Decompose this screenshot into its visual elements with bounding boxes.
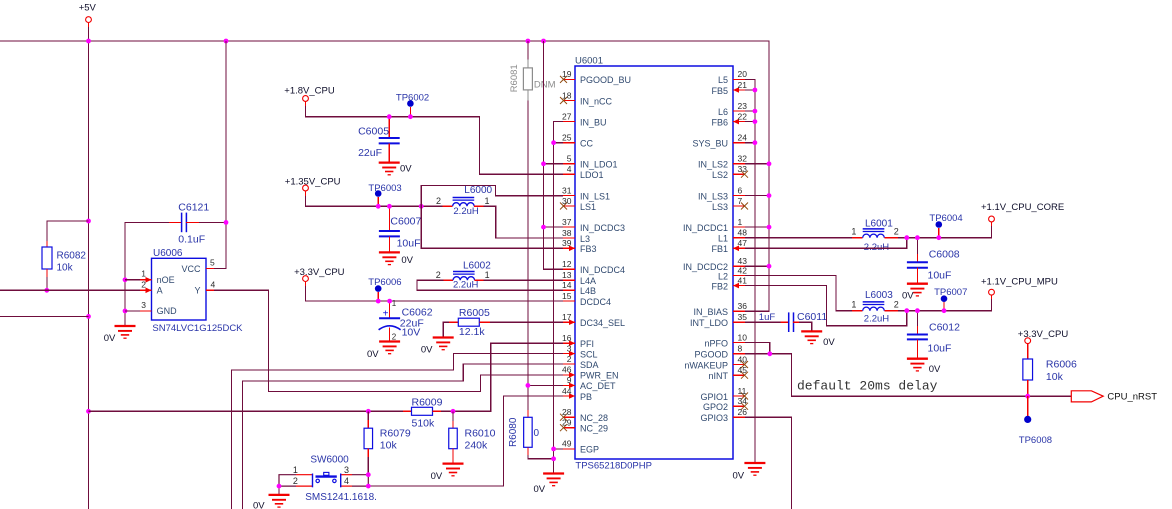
svg-text:22: 22 [738,111,748,121]
svg-text:R6009: R6009 [412,396,443,408]
wire DNM rail to AC_DET [527,101,529,410]
wire R6082 bottom to A-line [46,277,48,290]
power symbol +1.1V_CPU_CORE [981,202,1064,226]
svg-text:R6010: R6010 [465,428,496,440]
inductor L6002 [436,260,491,290]
svg-text:IN_DCDC3: IN_DCDC3 [580,223,625,233]
svg-text:default 20ms delay: default 20ms delay [797,379,938,394]
svg-text:1: 1 [851,226,856,236]
node AC_DET/DNM junction [526,383,531,388]
node nOE junction [123,277,128,282]
testpoint TP6006 [368,277,401,301]
U6001 pin 45 nINT [708,365,748,381]
ground C6007 0V [379,252,400,264]
svg-text:TP6007: TP6007 [934,287,967,298]
node IN_LS3 junction [767,193,772,198]
svg-text:0V: 0V [253,501,265,509]
wire SYS_BU stub [745,142,755,144]
wire R6005 left to ground [443,322,449,337]
resistor R6006 [1018,329,1077,396]
svg-text:1: 1 [485,270,490,280]
svg-text:4: 4 [567,164,572,174]
node SW6000 pin3 junction [366,472,371,477]
svg-text:TP6004: TP6004 [929,213,962,224]
junction dots on x=88 vertical [86,219,91,224]
wire PGOOD to delay line [745,354,1071,396]
wire C6011 right to ground [799,322,812,331]
node IN_DCDC2 junction [767,264,772,269]
wire backup-pins ground rail x=755 [745,79,755,463]
svg-text:FB3: FB3 [580,244,597,254]
svg-text:PB: PB [580,392,592,402]
svg-text:0V: 0V [401,255,413,266]
wire SDA off-page [243,364,564,509]
svg-text:3: 3 [567,343,572,353]
svg-text:C6011: C6011 [797,311,827,323]
svg-text:38: 38 [562,228,572,238]
wire CC stub [554,142,563,144]
ground R6005 0V [433,338,454,350]
svg-text:C6005: C6005 [358,126,389,138]
svg-text:INT_LDO: INT_LDO [690,318,728,328]
U6001 pin 30 LS1 [560,196,596,212]
wire U6006 Y output to PWR_EN [214,290,563,391]
svg-text:IN_LDO1: IN_LDO1 [580,160,618,170]
node CC junction [551,140,556,145]
svg-text:25: 25 [562,133,572,143]
svg-text:EGP: EGP [580,445,599,455]
node IN_LS2 junction [767,161,772,166]
U6001 pin 12 IN_DCDC4 [562,259,625,275]
testpoint TP6003 [368,183,401,207]
svg-text:TP6008: TP6008 [1019,435,1052,446]
svg-text:4: 4 [211,280,216,290]
svg-text:2.2uH: 2.2uH [453,280,478,291]
wire +1.8V to LDO1 [306,106,564,174]
node TP6003 junction [376,204,381,209]
svg-text:TP6003: TP6003 [368,183,401,194]
svg-text:2: 2 [141,279,146,289]
node FB1 junction [904,235,909,240]
U6001 pin 38 L3 [562,228,590,244]
U6001 pin 21 FB5 [711,80,747,96]
node SW6000 pin4 junction [366,484,371,489]
wire +1.35V to IN_LS1 (over jog) [421,185,563,206]
testpoint TP6002 [396,92,429,116]
svg-text:IN_LS1: IN_LS1 [580,191,610,201]
wire +1.35V node [306,196,443,206]
ground SW6000 0V [269,495,290,507]
svg-text:27: 27 [562,111,572,121]
U6001 pin 32 IN_LS2 [698,154,747,170]
svg-text:12: 12 [562,259,572,269]
svg-text:LS2: LS2 [712,170,728,180]
inductor L6000 [436,185,493,217]
svg-text:IN_LS2: IN_LS2 [698,160,728,170]
wire nPFO to PGOOD [745,343,770,354]
U6001 pin 28 NC_28 [560,407,608,423]
svg-text:SDA: SDA [580,360,599,370]
svg-text:SYS_BU: SYS_BU [692,139,728,149]
wire +1.1V_CPU_CORE node [898,226,992,238]
svg-text:7: 7 [738,196,743,206]
wire L2 to L6003 [745,276,852,311]
U6001 pin 43 IN_DCDC2 [683,256,747,272]
svg-text:46: 46 [562,365,572,375]
svg-text:NC_28: NC_28 [580,413,608,423]
ground C6062 0V [379,342,400,354]
svg-text:FB2: FB2 [711,281,728,291]
wire AC_DET stub to DNM rail [528,384,563,386]
svg-text:C6121: C6121 [178,202,209,214]
U6001 pin 27 IN_BU [562,111,606,127]
svg-text:1: 1 [738,217,743,227]
svg-text:LS3: LS3 [712,202,728,212]
testpoint TP6007 [934,287,967,311]
node C6008 junction [915,235,920,240]
U6006 pin 3 GND [125,300,152,311]
inductor L6003 [851,290,898,324]
svg-text:2: 2 [436,196,441,206]
wire R6005 right to DC34_SEL [490,321,563,323]
svg-text:21: 21 [738,80,748,90]
resistor R6081 (DNM) [509,59,556,100]
node L6 junction [753,109,758,114]
node R6082/A junction [44,288,49,293]
wire AC_DET/R6009 row [89,410,404,412]
svg-text:PGOOD: PGOOD [694,350,728,360]
svg-text:22uF: 22uF [358,147,382,159]
wire +1.1V_CPU_MPU node [898,299,992,311]
op-amp U6006 buffer SN74LVC1G125DCK [152,248,244,334]
wire SW6000 pins 1-2 to ground [278,486,280,495]
svg-text:2: 2 [894,226,899,236]
svg-text:0V: 0V [823,337,835,348]
svg-text:GPIO3: GPIO3 [700,413,728,423]
svg-text:nWAKEUP: nWAKEUP [684,360,728,370]
port CPU_nRST [1071,391,1157,403]
svg-text:R6006: R6006 [1046,359,1077,371]
svg-text:+5V: +5V [79,3,97,14]
U6001 pin 17 DC34_SEL [562,312,625,328]
svg-text:PGOOD_BU: PGOOD_BU [580,75,631,85]
ground C6008 0V [907,284,928,296]
node C6062 junction [387,299,392,304]
capacitor C6062 polarized [379,299,433,342]
node FB6 junction [753,119,758,124]
svg-text:C6012: C6012 [929,322,960,334]
node +1.35V main junction [419,204,424,209]
power symbol +1.35V_CPU [285,176,341,196]
capacitor C6008 [907,238,960,284]
svg-text:10uF: 10uF [928,270,952,282]
svg-text:L4B: L4B [580,286,596,296]
U6006 pin 4 Y [206,280,216,291]
wire PFI to R6009 node [453,343,563,411]
wire net to U6006 pin A (from left edge) [0,289,140,291]
wire L6000 pin1 to L3 [484,206,564,238]
node EGP junction [551,447,556,452]
svg-text:FB5: FB5 [711,86,728,96]
svg-text:2.2uH: 2.2uH [864,242,889,253]
U6001 pin 48 L1 [718,228,747,244]
svg-text:31: 31 [562,185,572,195]
svg-text:3: 3 [344,465,349,475]
U6001 pin 34 GPO2 [703,396,748,412]
node SYS_BU junction [753,140,758,145]
svg-text:11: 11 [738,386,747,396]
wire FB2 sense [745,286,907,326]
wire PB to SW6000 [368,396,563,486]
wire +3.3V to DCDC4 [306,286,564,301]
wire IN_LS2 to +5V rail [745,163,769,165]
svg-text:0V: 0V [421,345,433,356]
capacitor C6012 [907,311,960,359]
node TP6002 junction [408,114,413,119]
U6001 pin 4 LDO1 [563,164,604,180]
svg-text:IN_nCC: IN_nCC [580,96,613,106]
svg-text:nINT: nINT [708,371,728,381]
U6001 pin 14 L4B [562,280,596,296]
node GND pin3 junction [123,309,128,314]
svg-text:GPIO1: GPIO1 [700,392,728,402]
svg-text:2: 2 [392,333,397,342]
wire IN_DCDC3 stub [544,226,564,228]
wire +5V vertical x=88 [88,27,90,509]
svg-text:34: 34 [738,396,748,406]
node R6080 rail junction [551,456,556,461]
U6001 pin 31 IN_LS1 [562,185,610,201]
svg-text:DCDC4: DCDC4 [580,297,611,307]
svg-text:U6001: U6001 [575,56,603,67]
ground C6012 0V [907,359,928,371]
svg-text:+1.1V_CPU_MPU: +1.1V_CPU_MPU [981,276,1058,287]
wire R6009 right node [441,410,453,412]
svg-text:24: 24 [738,133,748,143]
svg-text:R6081: R6081 [509,64,520,92]
svg-text:32: 32 [738,154,748,164]
IC U6001 TPS65218D0PHP [575,56,733,472]
svg-text:240k: 240k [465,440,489,452]
U6001 pin 5 IN_LDO1 [563,154,618,170]
svg-text:+1.8V_CPU: +1.8V_CPU [284,85,335,96]
U6001 pin 44 PB [562,386,592,402]
svg-text:nPFO: nPFO [704,338,728,348]
U6001 pin 42 L2 [718,265,747,281]
svg-text:2.2uH: 2.2uH [453,206,478,217]
U6001 pin 33 LS2 [712,164,748,180]
wire +5V rail x=543 [544,41,564,269]
capacitor C6007 [379,206,422,252]
U6001 pin 9 AC_DET [563,375,616,391]
svg-text:10uF: 10uF [397,237,421,249]
svg-text:3: 3 [141,300,146,310]
svg-text:33: 33 [738,164,748,174]
svg-text:PFI: PFI [580,339,594,349]
node R6009 right junction [451,409,456,414]
svg-text:0V: 0V [400,164,412,175]
power symbol +3.3V_CPU [294,267,345,286]
U6001 pin 41 FB2 [711,275,747,291]
svg-text:PWR_EN: PWR_EN [580,371,619,381]
svg-text:8: 8 [738,344,743,354]
U6001 pin 6 IN_LS3 [698,185,745,201]
U6001 pin 39 FB3 [562,238,596,254]
wire FB5 stub [745,89,755,91]
ground R6010 0V [443,464,464,476]
svg-text:0V: 0V [902,291,914,302]
wire DNM rail top [527,41,529,59]
ground EGP 0V [543,474,564,486]
svg-text:R6079: R6079 [380,428,411,440]
svg-text:DNM: DNM [534,80,556,91]
capacitor C6005 [358,117,400,163]
svg-text:L6003: L6003 [865,290,893,301]
svg-text:TPS65218D0PHP: TPS65218D0PHP [575,461,652,472]
svg-text:U6006: U6006 [153,248,183,259]
svg-text:39: 39 [562,238,572,248]
U6001 pin 19 PGOOD_BU [560,69,631,85]
svg-text:49: 49 [562,439,572,449]
svg-text:41: 41 [738,275,748,285]
svg-text:AC_DET: AC_DET [580,381,616,391]
svg-text:0V: 0V [733,471,745,482]
inductor L6001 [851,219,898,254]
svg-text:C6008: C6008 [929,249,960,261]
junction dots on +5V bus [86,39,91,44]
node C6007 junction [387,204,392,209]
svg-text:6: 6 [738,185,743,195]
wire L1 to L6001 [745,237,852,239]
wire IN_DCDC2 to +5V rail [745,265,769,267]
node PGOOD junction [767,351,772,356]
svg-text:10: 10 [738,332,748,342]
svg-text:18: 18 [562,90,572,100]
wire GPIO3 off-page [745,417,792,509]
svg-text:2: 2 [436,270,441,280]
wire C6121 right to VCC rail [199,221,226,223]
power symbol +1.8V_CPU [284,85,335,106]
svg-text:nOE: nOE [157,275,175,285]
U6001 pin 1 IN_DCDC1 [683,217,745,233]
svg-text:0V: 0V [431,471,443,482]
svg-text:L1: L1 [718,234,728,244]
svg-text:L6000: L6000 [464,185,492,196]
capacitor C6121 [169,202,209,246]
node TP6007 junction [942,308,947,313]
svg-text:45: 45 [738,365,748,375]
svg-text:LDO1: LDO1 [580,170,604,180]
svg-text:L6: L6 [718,107,728,117]
svg-text:GND: GND [157,306,178,316]
svg-text:L6001: L6001 [865,219,893,230]
wire U6006 VCC rail from +5V bus [214,41,226,269]
svg-text:+1.1V_CPU_CORE: +1.1V_CPU_CORE [981,202,1064,213]
svg-text:A: A [157,286,163,296]
node TP6004 junction [936,235,941,240]
U6001 pin 16 PFI [562,333,594,349]
svg-text:L5: L5 [718,75,728,85]
ground U6006 0V [115,326,136,338]
svg-text:35: 35 [738,312,748,322]
svg-text:0V: 0V [929,364,941,375]
wire FB6 stub [745,121,755,123]
svg-text:IN_LS3: IN_LS3 [698,191,728,201]
svg-text:1: 1 [392,299,397,308]
svg-text:VCC: VCC [181,264,201,274]
svg-text:28: 28 [562,407,572,417]
wire INT_LDO to C6011 [745,321,781,323]
svg-text:20: 20 [738,69,748,79]
svg-text:+1.35V_CPU: +1.35V_CPU [285,176,341,187]
svg-text:+3.3V_CPU: +3.3V_CPU [294,267,345,278]
svg-text:TP6006: TP6006 [368,277,401,288]
svg-text:LS1: LS1 [580,202,596,212]
U6001 pin 26 GPIO3 [700,407,747,423]
svg-text:R6005: R6005 [459,307,490,319]
power symbol +1.1V_CPU_MPU [981,276,1058,299]
node R6006/CPU_nRST junction [1025,394,1030,399]
U6001 pin 40 nWAKEUP [684,354,748,370]
svg-text:DC34_SEL: DC34_SEL [580,318,625,328]
node TP6006 junction [376,299,381,304]
wire R6080 bottom to ground rail [528,455,554,459]
wire +1.35V to FB3 [421,206,563,248]
svg-text:GPO2: GPO2 [703,402,728,412]
wire EGP stub [554,448,563,450]
svg-text:4: 4 [344,476,349,486]
svg-text:IN_BU: IN_BU [580,117,607,127]
wire L6002 pin2 to L4B [417,280,563,290]
svg-text:1: 1 [485,196,490,206]
node IN_DCDC3 junction [541,225,546,230]
power symbol +5V [79,3,97,28]
svg-text:1: 1 [293,465,298,475]
svg-text:0.1uF: 0.1uF [178,234,205,246]
svg-text:44: 44 [562,386,572,396]
svg-text:Y: Y [194,286,200,296]
node IN_DCDC1 junction [767,225,772,230]
resistor R6079 [364,411,411,474]
svg-text:15: 15 [562,291,572,301]
wire +5V top bus [0,41,769,311]
U6001 pin 35 INT_LDO [690,312,747,328]
node FB2 junction [904,308,909,313]
svg-text:37: 37 [562,217,572,227]
svg-text:9: 9 [567,375,572,385]
svg-text:30: 30 [562,196,572,206]
svg-text:12.1k: 12.1k [459,326,485,338]
svg-text:FB1: FB1 [711,244,728,254]
svg-text:L2: L2 [718,271,728,281]
svg-text:2: 2 [567,354,572,364]
U6001 pin 18 IN_nCC [560,90,613,106]
U6001 pin 36 IN_BIAS [693,301,747,317]
svg-text:SMS1241.1618.: SMS1241.1618. [305,492,377,503]
U6001 pin 7 LS3 [712,196,748,212]
ground rail x=755 0V [744,463,765,475]
ground C6011 0V [801,331,822,343]
svg-text:47: 47 [738,238,748,248]
wire +5V spur at y=316 [0,315,89,317]
svg-text:36: 36 [738,301,748,311]
U6001 pin 25 CC [562,133,593,149]
svg-text:SN74LVC1G125DCK: SN74LVC1G125DCK [152,323,243,334]
svg-text:L3: L3 [580,234,590,244]
svg-text:17: 17 [562,312,572,322]
U6001 pin 2 SDA [563,354,599,370]
svg-text:2: 2 [293,476,298,486]
